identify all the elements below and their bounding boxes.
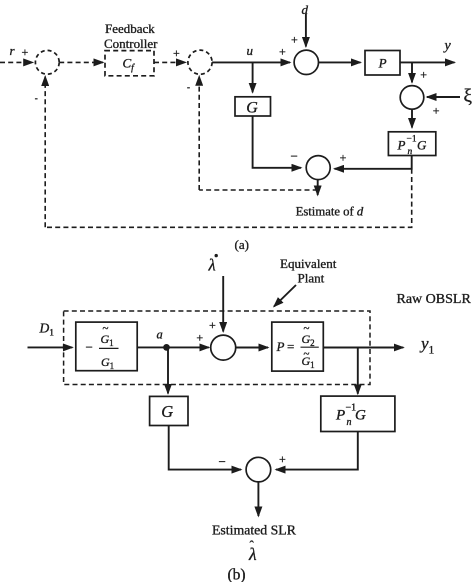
svg-text:~: ~ — [103, 323, 109, 335]
svg-text:Estimate of d: Estimate of d — [296, 205, 364, 219]
svg-text:Feedback: Feedback — [105, 21, 155, 36]
svg-text:Raw OBSLR: Raw OBSLR — [397, 292, 472, 307]
svg-text:-: - — [187, 82, 190, 92]
svg-text:u: u — [247, 43, 254, 58]
svg-text:−: − — [291, 149, 298, 164]
svg-text:P: P — [397, 138, 406, 153]
svg-text:G: G — [161, 402, 173, 421]
svg-text:y: y — [443, 39, 452, 54]
svg-text:d: d — [302, 2, 309, 17]
svg-text:=: = — [287, 339, 294, 354]
svg-text:Controller: Controller — [104, 36, 158, 51]
svg-text:+: + — [22, 45, 29, 59]
svg-text:G: G — [355, 408, 366, 424]
svg-text:+: + — [196, 330, 203, 344]
svg-text:P: P — [276, 339, 285, 354]
svg-text:(b): (b) — [228, 567, 246, 582]
svg-text:Estimated SLR: Estimated SLR — [212, 523, 297, 538]
svg-text:+: + — [420, 68, 427, 82]
svg-text:−1: −1 — [407, 135, 417, 145]
svg-text:a: a — [157, 328, 163, 342]
svg-text:~: ~ — [304, 348, 310, 360]
svg-text:−: − — [86, 340, 93, 355]
svg-text:n: n — [347, 417, 352, 428]
svg-text:ˆ: ˆ — [250, 538, 255, 553]
svg-text:(a): (a) — [235, 237, 249, 252]
svg-text:+: + — [291, 33, 298, 47]
svg-text:+: + — [433, 103, 440, 117]
svg-text:Plant: Plant — [298, 271, 325, 286]
svg-text:+: + — [173, 46, 180, 60]
svg-text:G: G — [417, 138, 427, 153]
svg-text:Equivalent: Equivalent — [280, 256, 337, 271]
svg-text:+: + — [209, 318, 216, 332]
svg-text:ξ: ξ — [464, 86, 473, 107]
svg-text:G: G — [246, 99, 258, 116]
svg-text:n: n — [408, 147, 413, 157]
svg-text:P: P — [335, 408, 345, 424]
svg-text:+: + — [340, 151, 347, 165]
svg-text:P: P — [378, 55, 387, 70]
svg-text:y1: y1 — [419, 334, 435, 357]
svg-text:−: − — [219, 454, 226, 469]
svg-text:-: - — [35, 93, 38, 103]
svg-text:D1: D1 — [39, 321, 55, 339]
svg-text:~: ~ — [304, 323, 310, 335]
svg-text:+: + — [279, 45, 286, 59]
svg-text:r: r — [10, 43, 16, 58]
svg-text:+: + — [279, 452, 286, 466]
svg-text:λ: λ — [208, 256, 216, 275]
